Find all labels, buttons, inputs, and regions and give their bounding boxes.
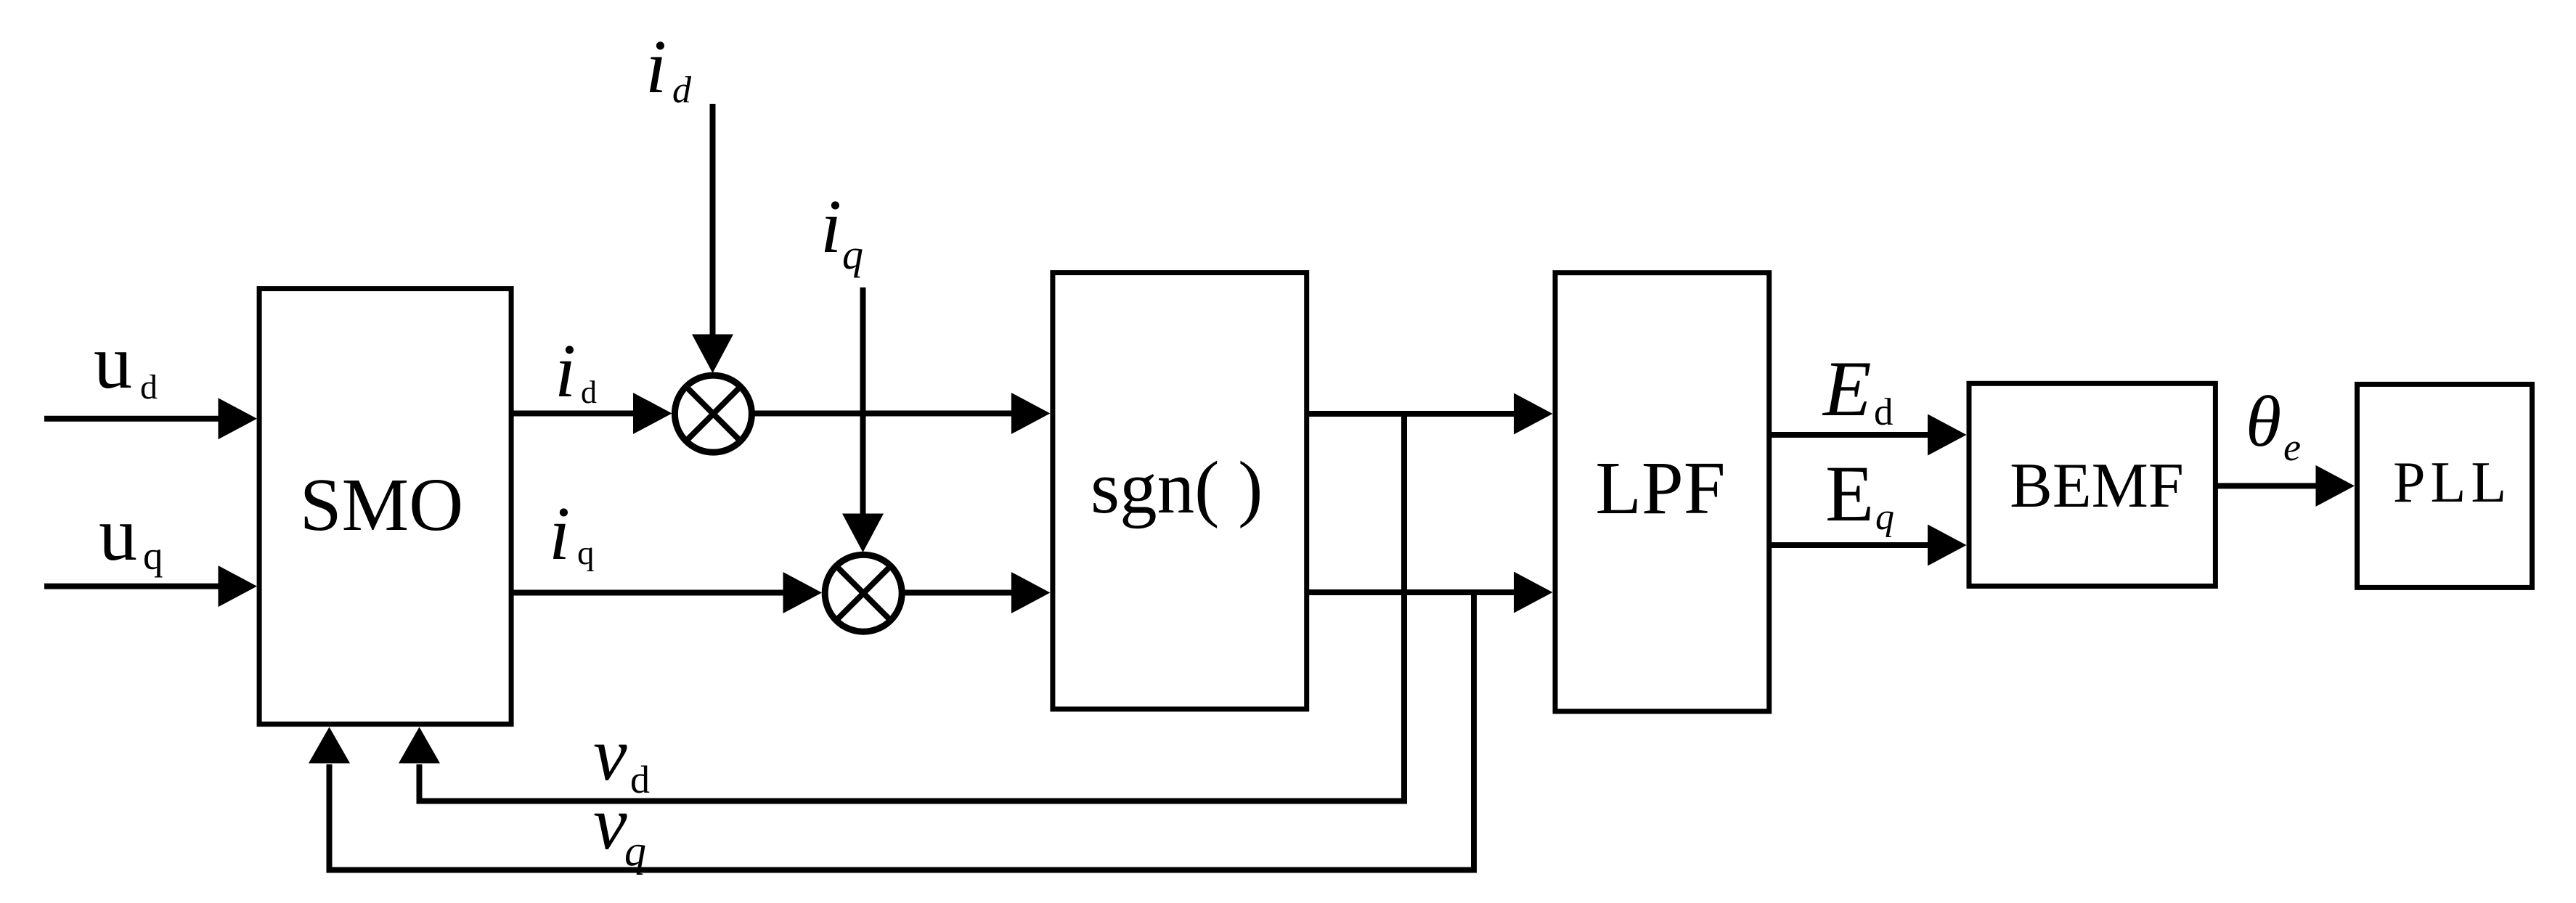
multiplier circle M1 — [674, 375, 751, 452]
svg-text:u: u — [99, 491, 137, 576]
svg-text:v: v — [593, 780, 627, 865]
wire i_d vertical — [710, 104, 716, 338]
block PLL — [2357, 384, 2532, 587]
wire LPF to BEMF E_d — [1769, 432, 1930, 438]
arrowhead u_d into SMO — [219, 398, 258, 439]
svg-text:E: E — [1825, 449, 1874, 538]
arrowhead i_d into mult1 — [692, 335, 733, 374]
wire SMO to mult1 — [511, 411, 635, 417]
wire sgn to LPF top — [1307, 411, 1516, 417]
arrowhead into mult1 — [633, 393, 672, 434]
arrowhead u_q into SMO — [219, 565, 258, 607]
svg-text:e: e — [2283, 425, 2301, 469]
block SMO — [259, 289, 511, 724]
node junction v_q on sgn-LPF bottom wire — [1471, 592, 1477, 870]
svg-text:LPF: LPF — [1595, 446, 1725, 530]
block sgn( ) — [1053, 273, 1307, 709]
node junction v_d on sgn-LPF top wire — [1401, 414, 1407, 801]
label i_d reference (top) — [645, 24, 692, 111]
svg-text:d: d — [581, 375, 597, 410]
label v_q — [593, 780, 646, 875]
svg-text:d: d — [140, 368, 158, 406]
arrowhead into sgn bottom input — [1011, 572, 1051, 613]
wire LPF to BEMF E_q — [1769, 542, 1930, 548]
svg-text:q: q — [624, 827, 646, 875]
block BEMF — [1969, 383, 2215, 586]
label theta_e — [2246, 381, 2301, 469]
arrowhead into LPF top input — [1514, 393, 1553, 435]
wire v_d riser into SMO — [417, 764, 423, 804]
svg-text:i: i — [555, 328, 576, 413]
arrowhead into PLL — [2316, 465, 2355, 507]
svg-text:q: q — [577, 534, 595, 572]
arrowhead into mult2 — [783, 572, 823, 613]
svg-text:q: q — [143, 534, 163, 578]
svg-text:i: i — [645, 24, 667, 109]
svg-text:d: d — [630, 758, 650, 801]
arrowhead into sgn top input — [1011, 393, 1051, 434]
arrowhead v_d into SMO bottom — [399, 727, 440, 764]
svg-text:i: i — [820, 184, 841, 269]
svg-text:sgn( ): sgn( ) — [1091, 446, 1263, 529]
svg-text:E: E — [1822, 345, 1872, 433]
svg-text:q: q — [842, 231, 863, 278]
label i_d hat (SMO output d) — [555, 328, 597, 413]
arrowhead E_q into BEMF — [1928, 525, 1967, 566]
wire SMO to mult2 — [511, 590, 786, 596]
svg-text:θ: θ — [2246, 381, 2281, 462]
label v_d — [593, 711, 650, 801]
multiplier circle M2 — [825, 555, 902, 632]
wire u_q input — [44, 584, 221, 589]
block LPF — [1555, 273, 1769, 711]
wire sgn to LPF bottom — [1307, 589, 1516, 595]
wire u_d input — [44, 416, 221, 422]
wire v_d horizontal — [417, 798, 1408, 804]
arrowhead into LPF bottom input — [1514, 572, 1553, 613]
label u_q — [99, 491, 163, 578]
label i_q hat (SMO output q) — [549, 491, 595, 576]
svg-text:i: i — [549, 491, 570, 576]
svg-text:u: u — [94, 319, 132, 404]
label i_q reference (top) — [820, 184, 863, 278]
wire BEMF to PLL — [2215, 483, 2318, 489]
label E_q — [1825, 449, 1894, 538]
wire i_q vertical — [860, 287, 866, 517]
label u_d — [94, 319, 158, 406]
svg-text:d: d — [672, 70, 692, 111]
svg-text:PLL: PLL — [2393, 451, 2511, 515]
wire v_q riser into SMO — [327, 764, 333, 873]
svg-text:d: d — [1874, 391, 1894, 433]
arrowhead i_q into mult2 — [842, 514, 884, 553]
wire mult2 to sgn — [902, 590, 1014, 596]
label E_d — [1822, 345, 1894, 433]
svg-text:q: q — [1875, 497, 1894, 538]
wire v_q horizontal — [327, 867, 1477, 873]
svg-text:BEMF: BEMF — [2010, 451, 2184, 521]
svg-text:SMO: SMO — [300, 463, 463, 547]
arrowhead E_d into BEMF — [1928, 414, 1967, 456]
arrowhead v_q into SMO bottom — [309, 727, 350, 764]
wire mult1 to sgn — [751, 411, 1014, 417]
